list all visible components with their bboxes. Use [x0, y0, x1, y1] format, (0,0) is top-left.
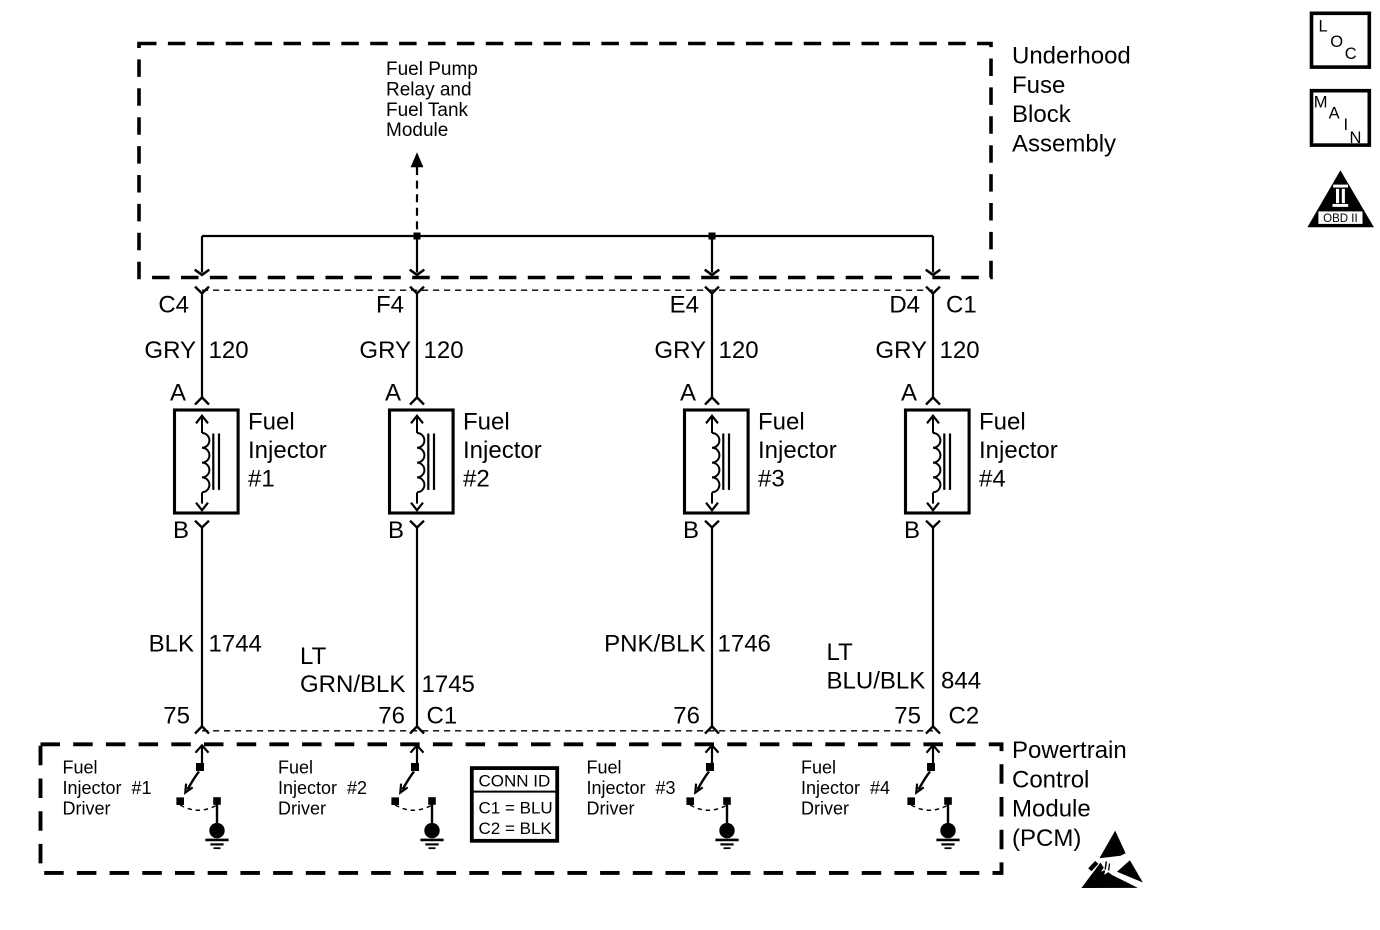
svg-text:O: O — [1330, 33, 1343, 51]
svg-text:L: L — [1319, 18, 1328, 36]
svg-text:Driver: Driver — [278, 799, 326, 819]
svg-text:#1: #1 — [248, 466, 275, 493]
fuel injector #2 driver (switch to ground) — [391, 745, 435, 824]
wire injector #3 pin B to PCM — [711, 527, 713, 727]
svg-text:Injector #4: Injector #4 — [801, 778, 890, 798]
fuel injector #1 (solenoid) — [175, 410, 239, 513]
CONN ID table — [472, 768, 557, 841]
fuel injector #3 driver (switch to ground) — [686, 745, 730, 824]
label: Fuel Injector #4 Driver — [801, 758, 890, 819]
connector D4 (Y symbol) — [926, 287, 940, 294]
pin A connector chevron — [410, 397, 424, 404]
svg-text:120: 120 — [719, 337, 759, 364]
pin A connector chevron — [926, 397, 940, 404]
svg-text:GRY: GRY — [654, 337, 706, 364]
svg-text:Injector: Injector — [979, 437, 1058, 464]
svg-text:C1: C1 — [946, 292, 977, 319]
PCM pin 76 connector chevron — [410, 726, 424, 733]
wire label LT BLU/BLK 844 — [827, 639, 982, 695]
connector E4 (Y symbol) — [705, 287, 719, 294]
PCM pin 75 connector chevron — [195, 726, 209, 733]
label: Fuel Injector #1 — [248, 409, 327, 493]
svg-text:Block: Block — [1012, 101, 1072, 128]
svg-text:Fuel: Fuel — [248, 409, 295, 436]
Underhood Fuse Block Assembly dashed box — [139, 44, 991, 278]
wire injector #1 pin B to PCM — [201, 527, 203, 727]
svg-text:Injector: Injector — [463, 437, 542, 464]
dashed wire to fuel pump relay (arrow up) — [411, 152, 424, 236]
svg-text:C: C — [1345, 45, 1357, 63]
svg-text:Driver: Driver — [587, 799, 635, 819]
fuel injector #4 driver (switch to ground) — [907, 745, 951, 824]
svg-text:Injector: Injector — [758, 437, 837, 464]
driver ground — [936, 823, 959, 848]
svg-text:1744: 1744 — [209, 631, 262, 658]
svg-text:120: 120 — [209, 337, 249, 364]
svg-text:#4: #4 — [979, 466, 1006, 493]
svg-text:GRY: GRY — [359, 337, 411, 364]
svg-text:#2: #2 — [463, 466, 490, 493]
LOC icon — [1312, 13, 1370, 67]
svg-text:Fuel: Fuel — [463, 409, 510, 436]
svg-text:LT: LT — [827, 639, 854, 666]
wire injector #4 pin B to PCM — [932, 527, 934, 727]
pin B connector (Y symbol) — [410, 521, 424, 528]
svg-text:C2: C2 — [949, 702, 980, 729]
svg-text:A: A — [680, 380, 696, 407]
label: Fuel Pump Relay and Fuel Tank Module — [386, 59, 478, 141]
svg-text:#3: #3 — [758, 466, 785, 493]
driver ground — [420, 823, 443, 848]
wire F4 to injector #2 pin A — [416, 293, 418, 397]
wire label BLK 1744 — [149, 631, 262, 658]
svg-text:Injector #3: Injector #3 — [587, 778, 676, 798]
svg-text:A: A — [901, 380, 917, 407]
wire drop to D4 with down arrow — [926, 236, 941, 275]
wire C4 to injector #1 pin A — [201, 293, 203, 397]
label: Fuel Injector #1 Driver — [63, 758, 152, 819]
svg-text:E4: E4 — [670, 292, 699, 319]
MAIN icon — [1312, 91, 1370, 147]
ESD sensitivity symbol — [1081, 831, 1143, 888]
svg-text:D4: D4 — [889, 292, 920, 319]
svg-text:Powertrain: Powertrain — [1012, 737, 1127, 764]
svg-text:LT: LT — [300, 643, 327, 670]
svg-text:(PCM): (PCM) — [1012, 825, 1081, 852]
svg-text:Fuel Pump: Fuel Pump — [386, 59, 478, 80]
pin B connector (Y symbol) — [705, 521, 719, 528]
wire E4 to injector #3 pin A — [711, 293, 713, 397]
wire D4 to injector #4 pin A — [932, 293, 934, 397]
OBD II icon — [1307, 170, 1374, 227]
svg-text:Fuel: Fuel — [63, 758, 98, 778]
svg-text:C1 = BLU: C1 = BLU — [479, 799, 553, 818]
svg-text:75: 75 — [163, 702, 190, 729]
svg-text:A: A — [1329, 104, 1340, 122]
svg-text:GRN/BLK: GRN/BLK — [300, 671, 405, 698]
svg-text:1745: 1745 — [422, 671, 475, 698]
svg-text:120: 120 — [424, 337, 464, 364]
svg-text:B: B — [683, 517, 699, 544]
svg-text:Underhood: Underhood — [1012, 43, 1131, 70]
svg-text:Injector: Injector — [248, 437, 327, 464]
svg-text:Injector #2: Injector #2 — [278, 778, 367, 798]
wire label PNK/BLK 1746 — [604, 631, 771, 658]
fuel injector #3 (solenoid) — [685, 410, 749, 513]
PCM connector dashed line — [202, 730, 933, 732]
svg-text:Fuel: Fuel — [758, 409, 805, 436]
label: Fuel Injector #3 — [758, 409, 837, 493]
svg-text:C2 = BLK: C2 = BLK — [479, 819, 553, 838]
svg-text:76: 76 — [673, 702, 700, 729]
svg-text:Driver: Driver — [63, 799, 111, 819]
svg-text:Fuel: Fuel — [587, 758, 622, 778]
svg-text:GRY: GRY — [144, 337, 196, 364]
svg-text:A: A — [170, 380, 186, 407]
bus wire inside fuse block — [202, 235, 933, 237]
wire drop to C4 with down arrow — [195, 236, 210, 275]
svg-text:Module: Module — [1012, 796, 1091, 823]
svg-text:PNK/BLK: PNK/BLK — [604, 631, 705, 658]
fuel injector #4 (solenoid) — [906, 410, 970, 513]
svg-text:M: M — [1314, 93, 1328, 111]
svg-text:B: B — [173, 517, 189, 544]
PCM pin 75 connector chevron — [926, 726, 940, 733]
wire drop to E4 with down arrow — [705, 236, 720, 275]
wire drop to F4 with down arrow — [410, 236, 425, 275]
svg-text:Assembly: Assembly — [1012, 130, 1116, 157]
svg-text:Fuel: Fuel — [801, 758, 836, 778]
svg-text:F4: F4 — [376, 292, 404, 319]
svg-text:BLK: BLK — [149, 631, 194, 658]
label: Fuel Injector #2 Driver — [278, 758, 367, 819]
svg-text:C1: C1 — [427, 702, 458, 729]
svg-text:1746: 1746 — [718, 631, 771, 658]
PCM pin 76 connector chevron — [705, 726, 719, 733]
fuel injector #2 (solenoid) — [390, 410, 454, 513]
junction at fuel pump tap — [414, 233, 421, 240]
wire label LT GRN/BLK 1745 — [300, 643, 475, 698]
wire injector #2 pin B to PCM — [416, 527, 418, 727]
svg-text:OBD II: OBD II — [1323, 213, 1358, 225]
fuel injector #1 driver (switch to ground) — [176, 745, 220, 824]
svg-text:I: I — [1344, 116, 1349, 134]
svg-text:C4: C4 — [158, 292, 189, 319]
pin A connector chevron — [195, 397, 209, 404]
svg-text:A: A — [385, 380, 401, 407]
pin B connector (Y symbol) — [195, 521, 209, 528]
connector F4 (Y symbol) — [410, 287, 424, 294]
pin B connector (Y symbol) — [926, 521, 940, 528]
svg-text:Fuel: Fuel — [979, 409, 1026, 436]
junction at E4 tap — [709, 233, 716, 240]
Powertrain Control Module dashed box — [41, 744, 1002, 873]
pin A connector chevron — [705, 397, 719, 404]
driver ground — [715, 823, 738, 848]
svg-text:844: 844 — [941, 668, 981, 695]
svg-text:BLU/BLK: BLU/BLK — [827, 668, 926, 695]
svg-text:Relay and: Relay and — [386, 79, 472, 100]
svg-text:B: B — [388, 517, 404, 544]
svg-text:Fuse: Fuse — [1012, 72, 1065, 99]
svg-text:B: B — [904, 517, 920, 544]
svg-text:CONN ID: CONN ID — [479, 772, 551, 791]
connector dashed line C4/F4/E4/D4 (C1) — [202, 289, 933, 291]
label: Powertrain Control Module (PCM) — [1012, 737, 1127, 852]
svg-text:120: 120 — [940, 337, 980, 364]
svg-text:Injector #1: Injector #1 — [63, 778, 152, 798]
svg-text:Control: Control — [1012, 766, 1089, 793]
svg-text:N: N — [1350, 129, 1362, 147]
svg-text:Fuel Tank: Fuel Tank — [386, 100, 469, 121]
svg-text:GRY: GRY — [875, 337, 927, 364]
svg-text:Module: Module — [386, 120, 448, 141]
svg-text:75: 75 — [894, 702, 921, 729]
label: Underhood Fuse Block Assembly — [1012, 43, 1131, 158]
label: Fuel Injector #4 — [979, 409, 1058, 493]
label: Fuel Injector #2 — [463, 409, 542, 493]
svg-text:76: 76 — [378, 702, 405, 729]
svg-text:Driver: Driver — [801, 799, 849, 819]
label: Fuel Injector #3 Driver — [587, 758, 676, 819]
driver ground — [205, 823, 228, 848]
connector C4 (Y symbol) — [195, 287, 209, 294]
svg-text:Fuel: Fuel — [278, 758, 313, 778]
